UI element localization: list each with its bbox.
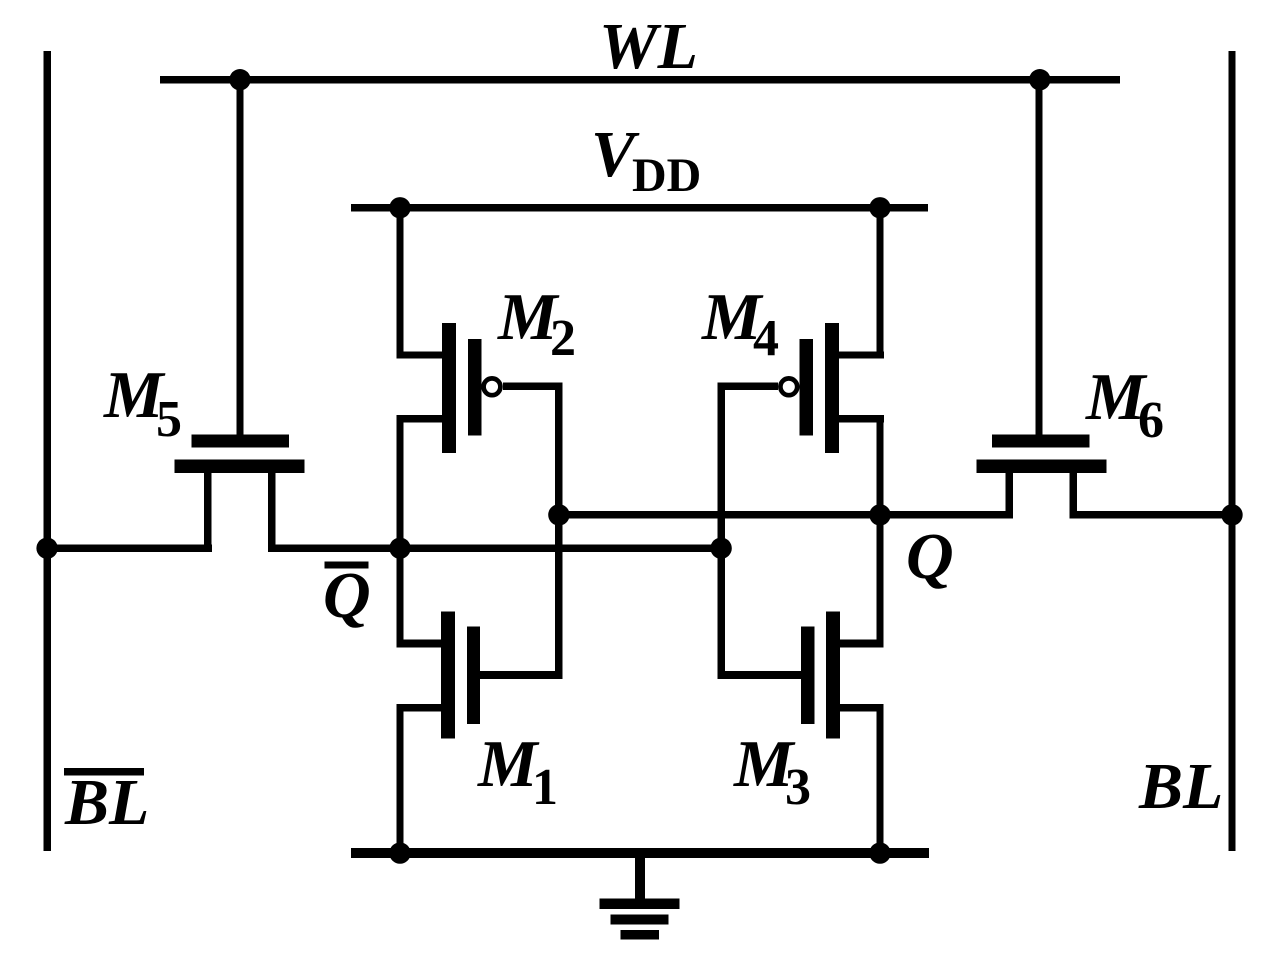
svg-text:5: 5 xyxy=(156,391,182,448)
wire right inverter column (M3 source to ground) xyxy=(876,704,883,858)
wire M2 gate to cross-couple column xyxy=(503,383,563,391)
wire M4/M3 gate column (to node Qbar line) xyxy=(717,383,724,680)
junction dot BL / M6 source xyxy=(1221,504,1242,525)
wire node Qbar horizontal (from M5 to M4/M3 gate column) xyxy=(268,545,725,552)
svg-text:2: 2 xyxy=(550,310,576,367)
wire M2/M1 gate column (to node Q line) xyxy=(555,383,562,680)
node label BLbar xyxy=(64,766,150,839)
label M1 xyxy=(477,727,558,816)
transistor M2 (PMOS, left inverter) xyxy=(396,323,481,453)
transistor M1 (NMOS, left inverter) xyxy=(396,611,480,738)
transistor M3 (NMOS, right inverter) xyxy=(801,611,884,738)
wire ground rail xyxy=(351,848,929,858)
wire left inverter column (M1 source to ground) xyxy=(396,704,403,858)
PMOS bubble M4 xyxy=(780,378,797,395)
svg-text:4: 4 xyxy=(753,310,779,367)
wire M4 gate to cross-couple column xyxy=(717,383,778,391)
wire node Q horizontal (from M2/M1 gate column to M6) xyxy=(555,511,1013,518)
node label Qbar xyxy=(323,559,371,632)
wire node Qbar horizontal (left segment from BLbar to M5) xyxy=(43,545,212,552)
ground symbol xyxy=(600,853,680,939)
junction dot Q line / M2-M1 gate column xyxy=(548,504,569,525)
wire left inverter column (VDD to M2 source) xyxy=(396,204,403,359)
junction dot ground / M3 xyxy=(869,842,890,863)
junction dot Qbar line / M4-M3 gate column xyxy=(710,538,731,559)
svg-text:Q: Q xyxy=(906,520,954,593)
junction dot node Q xyxy=(869,504,890,525)
label M2 xyxy=(497,280,576,367)
label M3 xyxy=(733,727,811,816)
svg-text:WL: WL xyxy=(599,10,698,83)
transistor M4 (PMOS, right inverter) xyxy=(800,323,884,453)
wire right inverter column (VDD to M4 source) xyxy=(876,204,883,359)
junction dot VDD / M4 source xyxy=(869,197,890,218)
wire M5 gate vertical xyxy=(236,80,243,440)
label M5 xyxy=(103,358,182,448)
wire WL (word line horizontal) xyxy=(160,76,1120,83)
wire M6 gate vertical xyxy=(1035,80,1042,440)
junction dot BLbar / M5 drain xyxy=(36,538,57,559)
svg-text:3: 3 xyxy=(785,759,811,816)
bit line BL (right vertical wire) xyxy=(1228,51,1235,851)
label M4 xyxy=(701,280,779,367)
label M6 xyxy=(1085,360,1164,449)
junction dot node Qbar xyxy=(389,538,410,559)
svg-text:M: M xyxy=(477,727,540,801)
svg-text:BL: BL xyxy=(64,766,149,839)
junction dot WL / M5 gate xyxy=(229,69,250,90)
junction dot WL / M6 gate xyxy=(1029,69,1050,90)
svg-text:BL: BL xyxy=(1138,750,1223,823)
svg-text:Q: Q xyxy=(323,559,371,632)
wire left inverter column (M2 drain to M1 drain) xyxy=(396,415,403,647)
transistor M6 (NMOS access, rotated) xyxy=(977,435,1107,519)
wire M1 gate to cross-couple column xyxy=(480,671,563,679)
wire M3 gate to cross-couple column xyxy=(717,671,801,679)
PMOS bubble M2 xyxy=(484,378,501,395)
wire right inverter column (M4 drain to M3 drain) xyxy=(876,415,883,647)
svg-text:6: 6 xyxy=(1138,392,1164,449)
bit line BLbar (left vertical wire) xyxy=(43,51,50,851)
transistor M5 (NMOS access, rotated) xyxy=(175,435,305,552)
label VDD xyxy=(591,118,701,202)
wire VDD rail xyxy=(351,204,928,211)
wire node Q horizontal (from M6 to BL) xyxy=(1069,511,1235,518)
svg-text:DD: DD xyxy=(632,149,701,202)
junction dot VDD / M2 source xyxy=(389,197,410,218)
svg-text:1: 1 xyxy=(532,759,558,816)
junction dot ground / M1 xyxy=(389,842,410,863)
